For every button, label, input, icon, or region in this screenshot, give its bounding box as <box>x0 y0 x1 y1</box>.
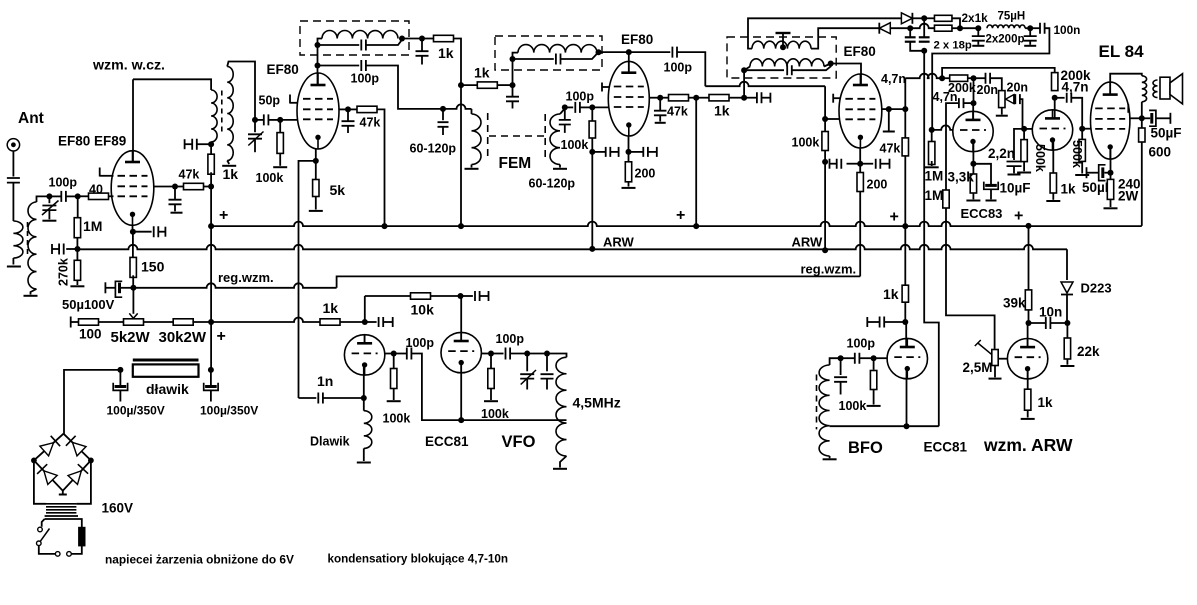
wire L2 top to node A1 <box>37 196 50 202</box>
svg-text:4,7n: 4,7n <box>881 72 906 86</box>
tube V7a ECC81 triode buffer <box>344 335 384 375</box>
ground L1 <box>7 266 21 268</box>
wire bridge left to transformer <box>34 460 46 503</box>
FEM dashed line middle <box>489 135 545 137</box>
variable capacitor CV2 band tuning <box>254 120 256 132</box>
wire tap to coil L15 <box>461 419 566 421</box>
capacitor C22 IF2 parallel <box>744 69 784 71</box>
ground R7 <box>273 166 287 168</box>
resistor R24 3,3k cathode <box>972 164 974 174</box>
resistor R41 30k2W <box>143 321 174 323</box>
capacitor C24 200p filter 2 <box>1029 28 1031 35</box>
node V5t tank node 1 <box>524 351 530 357</box>
wire P5 bottom ground <box>994 366 996 378</box>
node R5 EL84 grid node <box>1079 126 1085 132</box>
screen line V6 <box>1130 117 1142 119</box>
ground stub P1 <box>888 109 890 130</box>
resistor R5 1k decoupling <box>210 144 212 156</box>
cathode lead V8b <box>1027 369 1029 390</box>
coil L15 VFO tank 4,5MHz <box>556 357 567 456</box>
resistor R16 100k grid leak V4 <box>824 119 826 132</box>
ground R24 <box>966 200 980 202</box>
svg-text:1M: 1M <box>83 218 102 234</box>
capacitor C13 100p coupling V2 grid circuit <box>318 65 360 67</box>
svg-text:1n: 1n <box>317 373 333 389</box>
cathode lead V4 <box>859 148 861 164</box>
svg-text:1k: 1k <box>323 300 339 316</box>
svg-text:2,2n: 2,2n <box>988 146 1015 161</box>
wire M1 to H5 <box>743 70 745 98</box>
wire J2 down to ARW bus <box>824 162 826 250</box>
node A2 grid node <box>75 193 81 199</box>
resistor R38 22k <box>1066 323 1068 338</box>
wire Y1 down to dlawik <box>210 322 212 370</box>
capacitor C15 100p coupling to V3 <box>565 106 573 108</box>
node K7 cathode V6 <box>1108 170 1114 176</box>
node B3 screen junction <box>172 184 178 190</box>
capacitor C9 1n feedback <box>318 393 323 404</box>
contact row circle B <box>67 552 72 557</box>
svg-text:47k: 47k <box>880 142 901 156</box>
capacitor C19 cathode bypass V3 <box>629 151 644 153</box>
wire L10 left to detector line <box>748 18 902 48</box>
node B4 B+ bus start <box>208 223 214 229</box>
choke dlawik body <box>133 364 199 376</box>
coil L7 FEM output <box>550 114 560 165</box>
anode lead V7b <box>460 296 462 341</box>
potentiometer P6 5k2W <box>124 319 144 325</box>
capacitor C34 2,2n <box>1014 129 1024 160</box>
capacitor C17 screen bypass V3 <box>659 98 661 110</box>
resistor R28 1k cathode V5b <box>1050 173 1056 193</box>
tube V8b ECC81 triode ARW amp <box>1007 339 1047 379</box>
switch S1 lever <box>40 529 49 542</box>
wire tank to coil <box>527 354 566 358</box>
ground R3 <box>70 285 84 287</box>
grid3 stub V1 <box>99 168 101 177</box>
capacitor C43 VFO padding <box>546 354 548 372</box>
svg-text:100k: 100k <box>839 399 867 413</box>
wire D2 to tube V2 grid <box>280 119 297 121</box>
capacitor C45 100p BFO grid <box>859 357 873 359</box>
wire W3 to coil top <box>830 358 841 365</box>
node X2 D223 node <box>1064 320 1070 326</box>
node J2 <box>822 159 828 165</box>
cathode lead V7b <box>460 363 462 421</box>
wire R5 to EL84 grid <box>1082 128 1091 130</box>
ground L15 <box>553 468 567 470</box>
tube V8a ECC81 triode BFO <box>887 338 927 378</box>
resistor R13 47k screen V3 <box>660 97 669 99</box>
core antenna transformer T1 (dashed) <box>27 222 29 254</box>
svg-text:2x200p: 2x200p <box>986 34 1025 46</box>
svg-text:1k: 1k <box>474 65 490 81</box>
svg-text:100k: 100k <box>256 171 284 185</box>
resistor R4 150 cathode V1 <box>130 257 136 277</box>
node R1g grid node V5a <box>929 127 935 133</box>
wire ARW end to D223 <box>1066 249 1068 280</box>
wire G3 down to ARW bus <box>591 152 593 249</box>
wiper arrow P5 <box>978 343 992 355</box>
dashed box IF1 <box>300 21 409 55</box>
node K2 on reg.wzm bus <box>130 285 136 291</box>
node Q1 <box>939 75 945 81</box>
node V4g grid V7b <box>488 351 494 357</box>
capacitor C29 cathode right <box>860 163 873 165</box>
node N5 <box>1027 25 1033 31</box>
wire L2 bottom to ground <box>31 289 37 295</box>
capacitor C7 50p coupling <box>255 119 264 121</box>
wire R23 down to 2.5M pot <box>946 208 995 349</box>
node G1 <box>562 104 568 110</box>
wire F1 to mixer coil with hop <box>443 104 472 109</box>
choke dlawik core <box>133 359 199 362</box>
capacitor C11 bypass <box>421 39 423 52</box>
ground C17 <box>655 122 666 124</box>
svg-text:20n: 20n <box>977 83 999 97</box>
wire L4 bottom to ground <box>227 161 229 165</box>
contact row circle A <box>55 552 60 557</box>
svg-text:10µF: 10µF <box>1000 181 1031 196</box>
power row start tick <box>70 317 72 328</box>
resistor R31 1k VFO supply <box>320 319 340 325</box>
svg-text:1M: 1M <box>925 188 944 203</box>
node Y1 power junction <box>208 319 214 325</box>
wire barretter to secondary right <box>78 519 82 528</box>
resistor R32 10k <box>411 293 431 299</box>
variable capacitor CV3 VFO tuning <box>526 354 528 372</box>
capacitor C39 bypass at V1a <box>365 321 377 323</box>
svg-text:+: + <box>1014 208 1023 225</box>
node N3 <box>957 25 963 31</box>
capacitor C32 4,7n to ARW amp <box>964 102 974 104</box>
cathode lead V3 <box>628 136 630 152</box>
resistor R22 1M grid leak <box>931 130 933 142</box>
svg-text:200: 200 <box>635 167 656 181</box>
power line to VFO <box>211 318 320 323</box>
cathode lead V5a <box>972 142 974 164</box>
node P2 screen supply node <box>902 106 908 112</box>
node R4a anode node V5b <box>1052 95 1058 101</box>
wire K3 to feedback riser <box>299 161 316 398</box>
svg-text:napiecei żarzenia obniżone do: napiecei żarzenia obniżone do 6V <box>105 553 294 567</box>
svg-text:4,5MHz: 4,5MHz <box>573 395 621 411</box>
node E1 anode node V2 <box>315 63 321 69</box>
wire B3 to tube V1 grid2 <box>154 186 175 188</box>
ground R36 <box>867 405 881 407</box>
wire B+ riser to power row <box>210 226 212 322</box>
node R2a anode node V5a <box>971 100 977 106</box>
svg-text:1k: 1k <box>883 286 899 302</box>
coil L1 antenna primary <box>13 221 23 258</box>
node G2 V3 grid node <box>589 104 595 110</box>
resistor R9 5k cathode V2 <box>315 161 317 180</box>
capacitor C18 bypass IF2 <box>744 97 757 99</box>
wire L7 bottom ground <box>559 165 561 168</box>
svg-text:1k: 1k <box>1038 395 1054 410</box>
svg-text:ARW: ARW <box>603 235 635 250</box>
node E9 B+ bus <box>458 223 464 229</box>
tube V2 EF80 pentode <box>297 73 339 149</box>
svg-text:270k: 270k <box>57 258 71 286</box>
diode D5 bridge upper-right <box>73 443 87 456</box>
node E2 box1 left <box>315 42 321 48</box>
trimmer capacitor CT1 60-120p <box>442 109 444 120</box>
diode D6 bridge lower-left <box>44 471 57 485</box>
svg-text:60-120p: 60-120p <box>410 142 457 156</box>
svg-text:22k: 22k <box>1077 344 1100 359</box>
svg-text:100n: 100n <box>1054 23 1081 37</box>
coil L16 BFO tank <box>819 365 830 456</box>
node H4 B+ bus <box>693 223 699 229</box>
svg-text:100: 100 <box>79 327 102 342</box>
node N4 <box>975 25 981 31</box>
wire R8 to B+ riser x384 <box>377 109 385 226</box>
coil L8 box3 <box>513 53 519 59</box>
wire Q1 riser to 200k2 feed <box>942 68 1055 78</box>
capacitor C47 10n <box>1029 322 1046 324</box>
node D2 V2 grid node <box>277 117 283 123</box>
node A1 <box>46 193 52 199</box>
wire R4 to reg bus <box>132 275 134 288</box>
capacitor C27 18p b <box>923 18 925 37</box>
ground CV1 <box>42 220 56 222</box>
wire L10 right to detector line 2 <box>811 28 879 48</box>
potentiometer P5 2,5M <box>994 349 996 350</box>
wire N3 to filter <box>960 27 978 29</box>
switch S1 contact top <box>38 527 43 532</box>
svg-text:+: + <box>217 328 226 345</box>
B+ bus <box>211 222 1142 227</box>
svg-text:500k: 500k <box>1070 140 1084 168</box>
diode D4 bridge upper-left <box>40 443 54 456</box>
ground R15 <box>622 187 636 189</box>
anode lead V5b <box>1054 98 1056 119</box>
svg-text:EF80: EF80 <box>621 32 653 47</box>
core L16 dashed <box>816 375 818 430</box>
svg-text:50µ100V: 50µ100V <box>62 297 115 312</box>
anode lead V8a <box>905 322 907 347</box>
capacitor C4 cathode bypass V1 <box>133 231 152 233</box>
tube V5a ECC83 triode <box>953 111 993 151</box>
svg-text:10k: 10k <box>411 302 435 318</box>
anode lead V6 to output transformer <box>1110 74 1142 96</box>
node K5 cathode V4 <box>857 161 863 167</box>
grid line V7a <box>385 353 394 355</box>
svg-text:100p: 100p <box>406 336 435 350</box>
wire feedback to 1n <box>299 397 317 399</box>
bridge rectifier diamond <box>34 434 91 491</box>
anode lead V3 <box>628 52 630 73</box>
node R3g grid node V5b <box>1021 126 1027 132</box>
capacitor C8 screen bypass V2 <box>347 109 349 120</box>
wire L1 to ground <box>12 258 14 265</box>
resistor R23 1M series ARW <box>943 190 949 208</box>
node H2 screen node V3 <box>657 95 663 101</box>
node J1 V4 grid node <box>822 116 828 122</box>
svg-text:2,5M: 2,5M <box>963 360 993 375</box>
grid line V7b <box>482 353 492 355</box>
ground R22 <box>925 166 939 168</box>
ground P5 <box>989 378 1002 380</box>
wire L15 bottom ground <box>560 456 567 468</box>
capacitor C2 100p grid coupling <box>49 195 61 197</box>
cathode lead V2 <box>315 149 317 161</box>
svg-text:reg.wzm.: reg.wzm. <box>218 270 274 285</box>
resistor R34 100k grid leak V7b <box>490 354 492 369</box>
screen line V4 <box>882 108 889 110</box>
node K9 feedback tap <box>458 417 464 423</box>
variable capacitor CV1 antenna tuning <box>42 206 56 211</box>
capacitor C33 10uF cathode bypass <box>973 164 991 186</box>
wire contact B to barretter <box>71 546 82 554</box>
barretter RT1 <box>79 528 85 546</box>
wiper arrow of 5k2W <box>129 313 137 318</box>
resistor R14 1k anode decoupling V4 <box>696 97 709 99</box>
node N1 <box>921 15 927 21</box>
node V1a anode ECC81a <box>362 319 368 325</box>
capacitor C49 100uF/350V output <box>210 370 212 387</box>
node E8 <box>510 82 516 88</box>
ground L6 <box>465 168 479 170</box>
resistor R30 240 2W cathode V6 <box>1110 173 1112 180</box>
svg-text:EF80: EF80 <box>844 44 876 59</box>
svg-text:600: 600 <box>1149 145 1172 160</box>
svg-text:5k2W: 5k2W <box>111 329 151 346</box>
BFO output line <box>830 425 939 427</box>
capacitor C16 at G3 <box>592 151 605 153</box>
resistor R40 100 <box>71 321 79 323</box>
diode D2 detector <box>879 23 890 34</box>
node M1 IF2 primary left <box>741 67 747 73</box>
grid line V5a with hop <box>932 125 953 130</box>
svg-text:3,3k: 3,3k <box>948 170 975 185</box>
svg-text:4,7n: 4,7n <box>1062 80 1089 95</box>
transformer T3 primary winding <box>46 503 76 505</box>
wire R29 down to B+ bus <box>1141 142 1143 226</box>
node W2 grid BFO <box>871 355 877 361</box>
ground R39 <box>1021 418 1035 420</box>
capacitor C42 100p osc coupling <box>491 353 504 355</box>
wire dlawik left to bridge <box>64 370 120 434</box>
wire P2 up to AF line <box>904 78 906 109</box>
diode D1 detector <box>901 13 912 24</box>
wire to 5k2W wiper <box>132 288 134 314</box>
wire H3 riser to B+ bus <box>695 98 697 226</box>
ground R9 <box>309 210 323 212</box>
svg-text:50µF: 50µF <box>1151 126 1182 141</box>
ground C24 <box>1024 45 1036 47</box>
svg-text:75µH: 75µH <box>998 11 1026 23</box>
resistor R21 200k anode load V5a <box>950 75 968 81</box>
capacitor C38 50u100V reg bus <box>118 283 121 294</box>
center tap of L10 <box>780 44 786 50</box>
node K6 cathode V5a <box>970 161 976 167</box>
anode lead V7a from node V1a <box>364 335 366 344</box>
svg-text:reg.wzm.: reg.wzm. <box>801 262 857 277</box>
wire T1 down to 39k <box>1028 226 1030 290</box>
capacitor C5 anode decoupling <box>197 143 211 145</box>
wire R20 down to reg.wzm line <box>859 192 861 277</box>
node V6t tank node 2 <box>544 351 550 357</box>
node H5 anode supply IF2 <box>741 95 747 101</box>
coil L13 output transformer secondary <box>1153 80 1158 98</box>
node K4 cathode V3 <box>626 149 632 155</box>
svg-text:2W: 2W <box>1118 189 1139 204</box>
wire E7 riser to B+ <box>460 85 462 226</box>
node Q2 <box>971 75 977 81</box>
svg-text:100p: 100p <box>566 90 595 104</box>
node W3 <box>838 355 844 361</box>
svg-text:dławik: dławik <box>146 381 189 397</box>
svg-text:EF80 EF89: EF80 EF89 <box>58 134 126 149</box>
node E3 screen node V2 <box>345 106 351 112</box>
node A3 AGC node <box>75 246 81 252</box>
ground R28 <box>1046 200 1060 202</box>
cathode lead V8a <box>906 369 908 427</box>
speaker LS1 <box>1160 77 1170 99</box>
resistor R33 100k grid leak V7a <box>393 354 395 369</box>
node T1 39k supply <box>1026 223 1032 229</box>
wire L7 top to node G1 <box>560 107 565 114</box>
svg-text:4,7n: 4,7n <box>933 90 958 104</box>
node Y2 dlawik left <box>117 367 123 373</box>
svg-text:100k: 100k <box>792 136 820 150</box>
node E6 bypass node <box>419 36 425 42</box>
svg-text:+: + <box>890 209 899 226</box>
AF supply line y78 <box>905 74 942 79</box>
svg-text:100p: 100p <box>49 176 78 190</box>
capacitor C28 cathode left <box>847 163 861 165</box>
coil L9 IF2 primary <box>744 67 750 71</box>
resistor R2 1M grid leak <box>77 196 79 217</box>
node W1 anode BFO <box>902 319 908 325</box>
resistor R8 47k screen V2 <box>348 108 358 110</box>
svg-text:100p: 100p <box>496 332 525 346</box>
ground C34 <box>1008 174 1021 176</box>
node E4 B+ bus <box>382 223 388 229</box>
node B1 L3 bottom <box>208 141 214 147</box>
coil L2 antenna secondary <box>28 202 37 289</box>
ground R25 <box>1017 172 1031 174</box>
capacitor C25 100n coupling <box>1040 23 1045 34</box>
ground R34 <box>484 400 498 402</box>
node V2a <box>458 293 464 299</box>
svg-text:47k: 47k <box>179 167 200 181</box>
coil L5 IF1 <box>318 39 323 46</box>
capacitor C6 screen bypass V1 <box>174 187 176 200</box>
wire A1 to CV1 <box>48 196 50 203</box>
resistor R11 1k decoupling 2 <box>461 84 478 86</box>
cathode lead V5b <box>1052 140 1054 173</box>
node N2 <box>907 25 913 31</box>
antenna jack J1 <box>7 139 19 151</box>
resistor R29 600 screen <box>1141 118 1143 128</box>
svg-text:100µ/350V: 100µ/350V <box>200 404 258 418</box>
anode lead V2 <box>317 66 319 86</box>
resistor R36 100k grid leak BFO <box>873 358 875 370</box>
svg-text:kondensatiory blokujące 4,7-10: kondensatiory blokujące 4,7-10n <box>328 553 509 566</box>
node G3 <box>589 149 595 155</box>
node K3 cathode V2 <box>313 158 319 164</box>
capacitor C10 IF1 parallel <box>318 44 360 46</box>
node J3 ARW bus <box>822 247 828 253</box>
svg-text:150: 150 <box>141 259 165 275</box>
wire R37 to anode node <box>1028 310 1030 323</box>
resistor R6 47k screen V1 <box>203 186 211 188</box>
node Z2 bridge right <box>88 458 94 464</box>
node Y3 dlawik right <box>208 367 214 373</box>
